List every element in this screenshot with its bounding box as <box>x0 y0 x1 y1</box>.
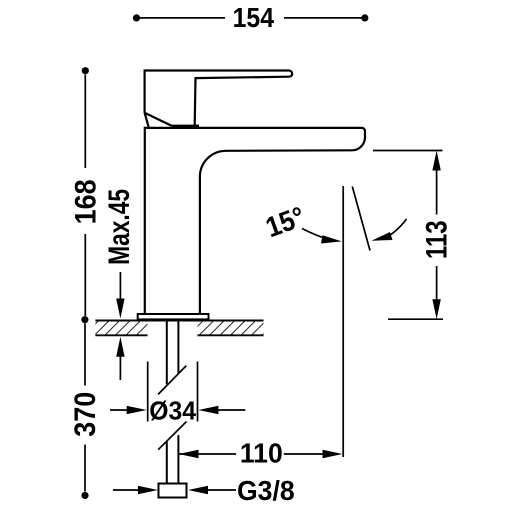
svg-text:Max.45: Max.45 <box>102 189 136 265</box>
svg-text:168: 168 <box>69 179 103 224</box>
svg-text:113: 113 <box>419 220 453 259</box>
svg-text:154: 154 <box>233 2 275 34</box>
svg-text:110: 110 <box>240 437 283 469</box>
svg-text:370: 370 <box>69 392 103 437</box>
svg-text:Ø34: Ø34 <box>149 397 196 425</box>
svg-text:G3/8: G3/8 <box>237 474 295 506</box>
